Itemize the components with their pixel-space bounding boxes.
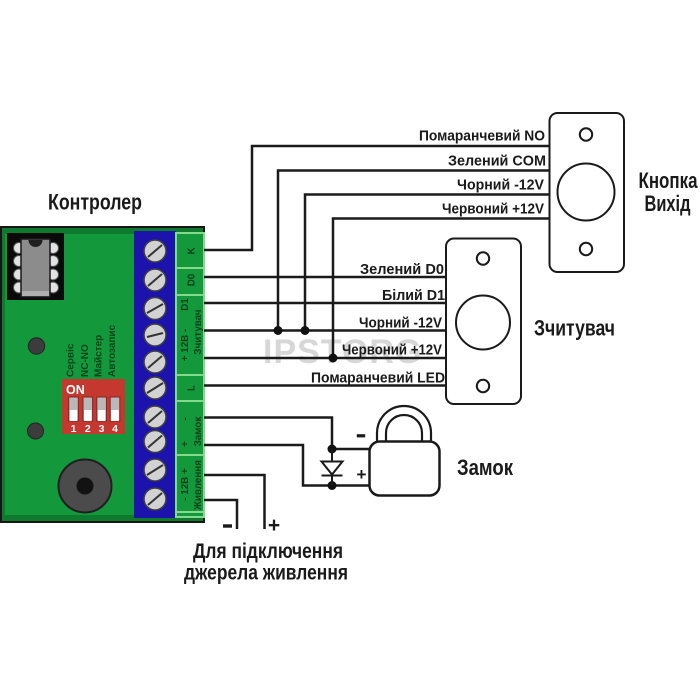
wire lock plus [204,445,369,486]
mounting hole top [28,338,44,354]
svg-text:Чорний -12V: Чорний -12V [457,177,544,194]
svg-text:+: + [268,514,280,537]
svg-text:Помаранчевий NO: Помаранчевий NO [419,128,545,145]
junction dot button -12V [301,326,310,335]
lock body [370,442,440,496]
label Кнопка Вихід [639,168,699,216]
svg-text:+: + [357,465,367,484]
reader wire labels [311,261,445,387]
svg-text:Автозапис: Автозапис [107,324,118,377]
wire power plus [204,475,265,529]
wire D0 [204,276,446,279]
svg-text:+: + [180,441,191,447]
junction dot COM/-12V [274,326,283,335]
svg-text:Зелений D0: Зелений D0 [360,261,444,278]
svg-text:1: 1 [71,423,77,435]
DIP switch SW1 [62,379,125,435]
exit button plate [550,113,625,272]
junction dot button +12V [329,354,338,363]
reader plate [446,239,521,405]
svg-text:-: - [180,417,191,420]
svg-text:Кнопка: Кнопка [639,168,699,193]
wire power minus [204,500,237,529]
wire -12V [204,329,446,332]
svg-text:Для підключення: Для підключення [193,540,343,563]
terminal strip labels [180,247,204,510]
wire lock minus [204,418,369,450]
svg-text:джерела живлення: джерела живлення [184,562,348,585]
svg-text:Зчитувач: Зчитувач [193,309,204,354]
svg-text:D0: D0 [187,273,198,286]
wire +12V [204,357,446,360]
svg-text:Чорний -12V: Чорний -12V [359,315,442,332]
buzzer [59,460,112,513]
DIP switch labels [66,324,119,377]
junction dot diode bottom [328,481,337,490]
terminal label strip [176,233,204,517]
svg-text:4: 4 [112,423,118,435]
svg-text:Червоний +12V: Червоний +12V [442,201,544,218]
diode D1 flyback [322,449,343,486]
svg-text:K: K [187,247,198,254]
svg-text:ON: ON [66,383,85,397]
svg-text:Вихід: Вихід [645,191,691,216]
svg-text:Замок: Замок [457,455,514,480]
wire D1 [204,302,446,305]
svg-text:Зчитувач: Зчитувач [534,316,615,341]
svg-text:2: 2 [85,423,91,435]
wire K to button NO [204,146,549,250]
power supply caption [184,540,348,585]
svg-text:+ 12В -: + 12В - [180,329,191,361]
svg-text:Сервіс: Сервіс [66,343,77,377]
svg-text:Контролер: Контролер [48,190,142,215]
IC U1 [7,233,64,300]
terminal screws [144,240,166,510]
wire COM tap [278,171,549,331]
svg-text:Білий D1: Білий D1 [382,287,445,304]
svg-text:Майстер: Майстер [94,335,105,377]
svg-text:Червоний +12V: Червоний +12V [342,342,442,359]
power minus label [223,524,232,527]
svg-text:D1: D1 [180,298,191,311]
wire button +12V tap [333,219,549,359]
button wire labels [419,128,546,218]
svg-text:Зелений COM: Зелений COM [448,153,546,170]
wire LED [204,384,446,387]
svg-text:- 12В +: - 12В + [180,468,191,501]
svg-text:NC-NO: NC-NO [80,344,91,377]
mounting hole bottom [28,423,44,439]
controller PCB board [1,227,204,522]
svg-text:Замок: Замок [193,417,204,447]
svg-text:L: L [187,385,198,391]
svg-text:Живлення: Живлення [193,460,204,511]
svg-text:3: 3 [99,423,105,435]
lock minus label [357,434,365,437]
junction dot diode top [328,445,337,454]
terminal block (blue) [134,231,176,518]
wire button -12V tap [305,195,549,331]
svg-text:Помаранчевий LED: Помаранчевий LED [311,370,445,387]
lock shackle [377,406,431,444]
